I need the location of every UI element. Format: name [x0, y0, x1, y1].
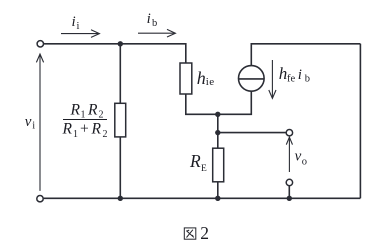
wire R1R2 bottom lead — [119, 137, 121, 198]
arrow current i_b — [138, 29, 175, 37]
svg-text:v: v — [25, 114, 32, 130]
terminal vo top — [286, 130, 292, 136]
terminal vo bottom — [286, 179, 292, 185]
svg-text:h: h — [197, 68, 206, 88]
svg-text:1: 1 — [73, 129, 78, 140]
arrow voltage v_i — [36, 54, 43, 191]
junction bottom node vo — [287, 196, 292, 201]
wire right rail — [359, 44, 361, 199]
junction emitter node — [215, 112, 220, 117]
svg-text:h: h — [279, 64, 288, 83]
junction top node — [118, 41, 123, 46]
svg-text:i: i — [147, 11, 151, 27]
svg-text:R: R — [189, 151, 201, 171]
terminal input top — [37, 41, 43, 47]
wire bottom rail — [44, 197, 361, 199]
fraction bar — [63, 119, 107, 121]
junction output node — [215, 130, 220, 135]
wire output node to vo terminal — [218, 132, 286, 134]
svg-text:R: R — [62, 121, 73, 138]
svg-text:b: b — [305, 74, 310, 85]
svg-text:R: R — [91, 121, 102, 138]
wire h_ie bottom lead — [186, 91, 252, 114]
wire current source top lead — [251, 44, 360, 66]
svg-text:b: b — [152, 18, 157, 29]
svg-text:2: 2 — [99, 109, 104, 120]
resistor h_ie — [180, 63, 192, 94]
resistor R1R2/(R1+R2) — [115, 103, 126, 137]
svg-text:i: i — [72, 14, 76, 30]
svg-text:2: 2 — [103, 129, 108, 140]
terminal input bottom — [37, 196, 43, 202]
svg-text:2: 2 — [200, 223, 209, 243]
svg-text:R: R — [87, 102, 98, 119]
wire top rail left — [44, 44, 186, 63]
svg-text:+: + — [80, 121, 89, 138]
svg-text:i: i — [298, 67, 302, 83]
svg-text:R: R — [70, 102, 81, 119]
wire vo bottom terminal lead — [288, 186, 290, 198]
svg-text:o: o — [302, 157, 307, 168]
caption glyph 図 — [184, 228, 196, 239]
svg-text:v: v — [295, 149, 302, 165]
svg-text:1: 1 — [81, 109, 86, 120]
wire RE bottom lead — [217, 182, 219, 199]
junction bottom node R1R2 — [118, 196, 123, 201]
svg-text:i: i — [32, 121, 35, 132]
junction bottom node RE — [215, 196, 220, 201]
current source U1 h_fe i_b — [239, 66, 265, 92]
svg-text:i: i — [77, 21, 80, 32]
arrow current i_i — [61, 30, 99, 38]
arrow voltage v_o — [286, 137, 292, 172]
resistor RE — [213, 148, 224, 182]
svg-text:E: E — [201, 164, 207, 174]
wire RE top lead — [217, 114, 219, 148]
svg-text:fe: fe — [287, 74, 295, 85]
arrow source current h_fe i_b — [269, 60, 276, 98]
wire R1R2 top lead — [119, 44, 121, 104]
svg-text:ie: ie — [206, 76, 215, 88]
